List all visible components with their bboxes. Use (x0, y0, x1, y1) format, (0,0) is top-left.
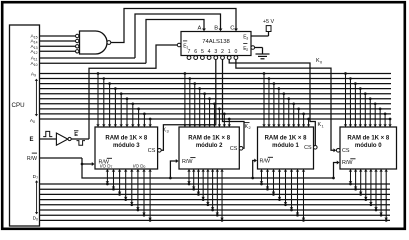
svg-text:CPU: CPU (12, 102, 25, 109)
svg-text:RAM de 1K × 8: RAM de 1K × 8 (347, 135, 390, 141)
svg-text:RAM de 1K × 8: RAM de 1K × 8 (265, 135, 308, 141)
svg-text:módulo 1: módulo 1 (272, 143, 299, 149)
svg-text:R/W: R/W (260, 159, 271, 165)
svg-text:7: 7 (188, 49, 191, 55)
svg-text:2: 2 (221, 49, 224, 55)
svg-text:2: 2 (246, 48, 248, 52)
svg-text:módulo 2: módulo 2 (196, 143, 223, 149)
svg-text:1: 1 (186, 46, 188, 50)
svg-text:CS: CS (342, 148, 350, 154)
svg-text:6: 6 (194, 49, 197, 55)
svg-text:E: E (74, 132, 78, 138)
svg-text:A: A (198, 26, 202, 32)
svg-text:CS: CS (148, 148, 156, 154)
svg-text:RAM de 1K × 8: RAM de 1K × 8 (188, 135, 231, 141)
svg-text:E: E (30, 137, 34, 143)
svg-text:CS: CS (304, 145, 312, 151)
svg-text:0: 0 (234, 49, 237, 55)
svg-text:3: 3 (214, 49, 217, 55)
svg-text:+5 V: +5 V (263, 19, 275, 25)
svg-text:módulo 0: módulo 0 (355, 143, 382, 149)
svg-text:C: C (230, 26, 234, 32)
svg-text:R/W: R/W (27, 156, 37, 162)
svg-text:R/W: R/W (342, 160, 353, 166)
svg-text:1: 1 (228, 49, 231, 55)
svg-text:R/W: R/W (182, 159, 193, 165)
svg-text:B: B (214, 26, 218, 32)
svg-text:4: 4 (208, 49, 211, 55)
svg-text:módulo 3: módulo 3 (113, 143, 140, 149)
svg-text:5: 5 (201, 49, 204, 55)
svg-text:74ALS138: 74ALS138 (202, 39, 230, 45)
svg-text:1: 1 (322, 123, 324, 128)
svg-text:3: 3 (167, 129, 169, 134)
svg-text:2: 2 (249, 125, 251, 130)
svg-text:CS: CS (230, 146, 238, 152)
svg-text:R/W: R/W (99, 160, 110, 166)
svg-text:3: 3 (246, 37, 248, 41)
svg-text:RAM de 1K × 8: RAM de 1K × 8 (105, 135, 148, 141)
